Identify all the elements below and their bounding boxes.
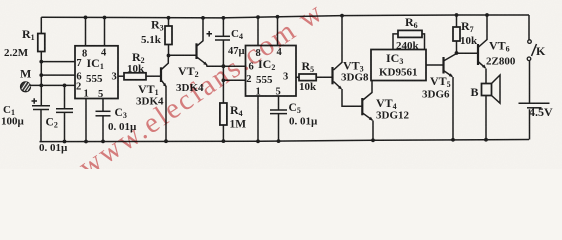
wire IC1 pin1 to ground rail [84,99,88,144]
node C4/pin6 junction [222,64,226,68]
op-amp U3: IC3 KD9561 box [371,50,426,81]
wire junction to VT6 base [457,52,478,54]
paper texture [0,0,562,169]
resistor R7 [453,13,478,53]
wire junction to VT2 base [169,54,197,56]
capacitor C5 [270,96,318,143]
wire IC1 pin6 [41,74,75,76]
node C4/pin2 junction [222,78,226,82]
resistor R6 [393,15,425,52]
watermark www.elecfans.com [73,0,330,183]
node R7/VT5/VT6 junction [455,51,459,55]
node R1/pin2 junction [39,84,43,88]
resistor R3 [141,16,172,56]
battery 4.5V [519,61,554,140]
op-amp U1: IC1 555 box [75,46,118,100]
op-amp U2: IC2 555 box [246,46,297,98]
capacitor C2 [39,85,73,154]
node R1/pin6 junction [39,73,43,77]
transistor Q4: VT4 3DG12 [362,81,409,143]
wire IC2 pin8 to rail [256,15,260,45]
microphone M [20,67,31,92]
wire IC2 pin1 to ground rail [256,96,260,143]
transistor Q6: VT6 2Z800 [478,13,516,83]
switch K [527,15,546,61]
wire IC1 pin8 to rail [84,16,88,46]
speaker B [471,75,501,142]
resistor R1 [4,17,45,106]
transistor Q5: VT5 3DG6 [422,54,457,142]
wire IC1 pin4 to rail [103,16,107,46]
resistor R5 [296,59,333,93]
wire bottom ground rail [40,140,530,142]
transistor Q1: VT1 3DK4 [136,56,168,144]
wire IC2 pin4 to rail [276,15,280,46]
capacitor C1 [1,98,50,141]
transistor Q2: VT2 3DK4 [176,16,246,94]
node C2 branch [63,84,67,88]
wire M to IC1 pin2 [30,84,75,86]
wire IC3 out to VT5 base [426,64,443,66]
node R1/pin7 junction [39,60,43,64]
resistor R2 [118,50,160,80]
wire C4 to IC2 pin2 [223,79,246,81]
wire top supply rail [41,15,529,18]
capacitor C4 [207,16,245,103]
transistor Q3: VT3 3DG8 [333,14,370,107]
resistor R4 [220,103,246,143]
wire IC1 pin7 [41,61,75,63]
node R3/VT1/VT2 junction [167,54,171,58]
capacitor C3 [96,99,138,144]
